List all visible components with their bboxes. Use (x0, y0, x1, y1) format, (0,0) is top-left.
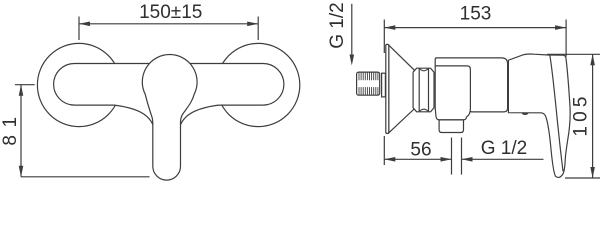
flange base plate (386, 44, 389, 133)
dim 150±15 extension line left (78, 17, 80, 41)
outlet boss G1/2 (439, 120, 463, 133)
dim 150±15 extension line right (257, 17, 259, 41)
dim 153 extension line right (565, 20, 567, 57)
thread hatch top (359, 72, 378, 80)
svg-text:56: 56 (410, 139, 431, 160)
G 1/2 supply leader line (351, 4, 353, 56)
cartridge cap and lever handle (142, 55, 197, 181)
dim 150±15 dimension line (79, 23, 258, 25)
svg-text:G 1/2: G 1/2 (327, 2, 348, 48)
dim 150±15 arrow right (247, 22, 258, 27)
dim 153 arrow right (555, 25, 566, 30)
dim 105 extension line bottom (565, 177, 600, 179)
dim 56 arrow left (384, 157, 395, 162)
left fillet curve (115, 105, 153, 124)
right body-handle fillet fill (181, 104, 219, 125)
dim 56 extension line left (383, 136, 385, 165)
flange cone (389, 45, 415, 133)
dim 81 arrow bottom (19, 166, 24, 177)
G 1/2 outlet leader line (462, 158, 544, 160)
svg-text:81: 81 (0, 109, 21, 145)
svg-text:G 1/2: G 1/2 (481, 138, 527, 159)
right fillet curve (181, 105, 219, 124)
valve body block (435, 66, 470, 120)
dim 105 arrow top (590, 54, 595, 65)
dim 105 dimension line (592, 54, 594, 178)
G 1/2 outlet leader arrow (462, 157, 473, 162)
hex nut (413, 68, 434, 112)
dim 150±15 arrow left (79, 22, 90, 27)
svg-text:153: 153 (460, 3, 492, 24)
G 1/2 outlet extension line (461, 138, 463, 175)
hub set screw (522, 113, 529, 115)
dim 81 extension line top (15, 84, 35, 86)
lever neck line (550, 55, 563, 171)
right escutcheon circle (217, 43, 300, 126)
left body-handle fillet fill (115, 104, 153, 125)
dim 105 arrow bottom (590, 167, 595, 178)
cap dome housing (435, 58, 507, 112)
dim 81 arrow top (19, 85, 24, 96)
collar ring (382, 73, 386, 97)
dim 81 dimension line (20, 85, 22, 177)
dim 153 dimension line (384, 27, 566, 29)
body pill (54, 64, 284, 106)
svg-text:150±15: 150±15 (139, 2, 202, 23)
G 1/2 supply arrowhead (350, 55, 355, 66)
dim 153 extension line left (383, 20, 385, 54)
dim 56 dimension line (384, 158, 451, 160)
thread hatch bottom (359, 87, 378, 95)
dim 56 arrow right (441, 157, 452, 162)
svg-text:105: 105 (571, 92, 592, 136)
left escutcheon circle (37, 43, 120, 126)
dim 81 extension line bottom (21, 176, 150, 178)
lever hub and blade (508, 54, 570, 177)
dim 105 extension line top (547, 53, 600, 55)
thread nipple (357, 72, 380, 95)
dim 153 arrow left (384, 25, 395, 30)
dim 56 extension line right (outlet centerline) (451, 138, 453, 175)
